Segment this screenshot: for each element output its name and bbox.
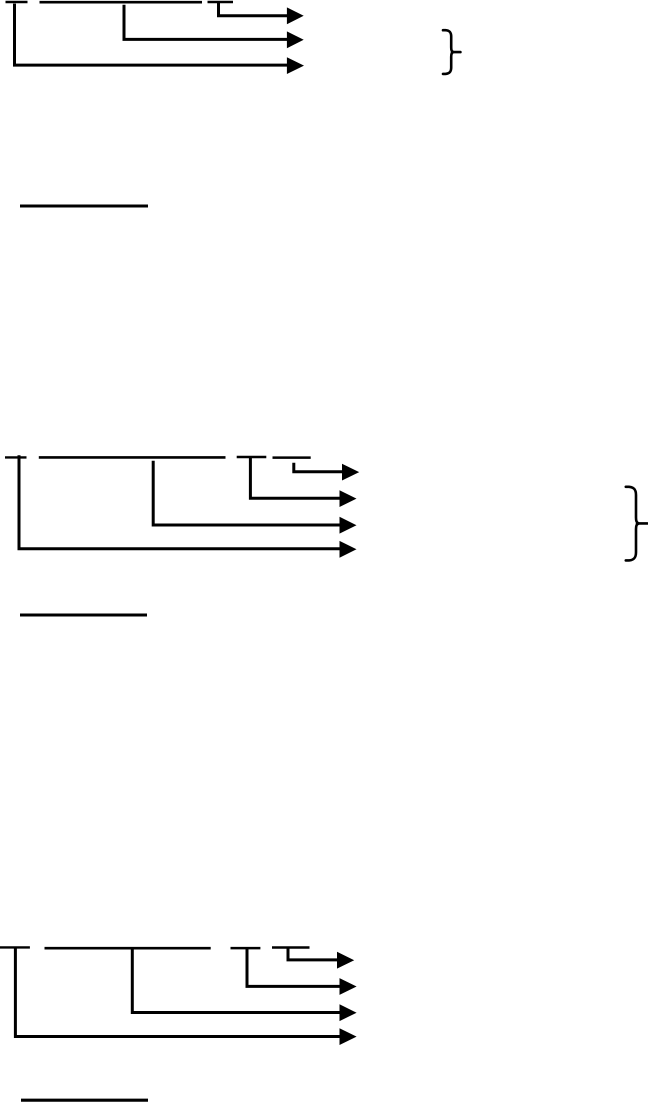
group 1 arrow 1: wire from segment c down then right [219,3,289,16]
group 3 arrow 2: arrowhead [340,978,357,995]
group 1: word-part underline segment a [6,1,28,3]
answer blank underline 3 (near bottom page edge) [21,1099,148,1102]
group 2 arrow 1: wire with small gap below segment d [294,463,343,472]
group 2: word-part underline segment c [237,456,267,458]
group 2 arrow 2: arrowhead [340,490,357,507]
group 2: curly brace middle tick [637,522,647,525]
group 3: word-part underline segment a (runs off left page edge) [0,946,30,948]
group 2 arrow 1: arrowhead [342,464,359,481]
group 3 arrow 1: wire from segment d down then right [288,948,338,960]
group 2 arrow 4: wire from segment a down then right [19,455,341,549]
group 1: word-part underline segment c [208,1,234,3]
group 2 arrow 4: arrowhead [340,541,357,558]
group 1 arrow 3: arrowhead [287,57,304,74]
group 1: curly brace middle tick [452,51,460,54]
group 2: word-part underline segment d [273,456,311,459]
group 1: word-part underline segment b (long) [40,1,203,4]
group 2 arrow 3: arrowhead [340,517,357,534]
group 2: right curly brace (spine with end hooks) [626,487,639,561]
group 3: word-part underline segment c [231,947,261,950]
group 3 arrow 3: wire from segment b down then right [132,949,340,1013]
group 1 arrow 2: wire from segment b down then right [124,5,288,40]
group 2 arrow 2: wire from segment c down then right [250,458,340,498]
group 1: right curly brace (spine with end hooks) [443,30,453,74]
group 3 arrow 4: wire from segment a down then right [15,947,340,1037]
answer blank underline 2 [20,614,147,617]
group 2: word-part underline segment b (long) [39,456,226,459]
group 1 arrow 2: arrowhead [287,31,304,48]
group 3 arrow 4: arrowhead [340,1028,357,1045]
group 2: word-part underline segment a [5,456,27,458]
group 3 arrow 2: wire from segment c down then right [247,948,341,987]
group 3: word-part underline segment b (long) [45,947,211,950]
group 1 arrow 3: wire from segment a down then right [15,4,289,66]
group 3 arrow 1: arrowhead [337,952,354,969]
answer blank underline 1 [20,205,148,208]
group 3: word-part underline segment d [272,946,310,949]
group 1 arrow 1: arrowhead [287,7,304,24]
group 2 arrow 3: wire with small gap below segment b [153,461,340,525]
group 3 arrow 3: arrowhead [340,1004,357,1021]
